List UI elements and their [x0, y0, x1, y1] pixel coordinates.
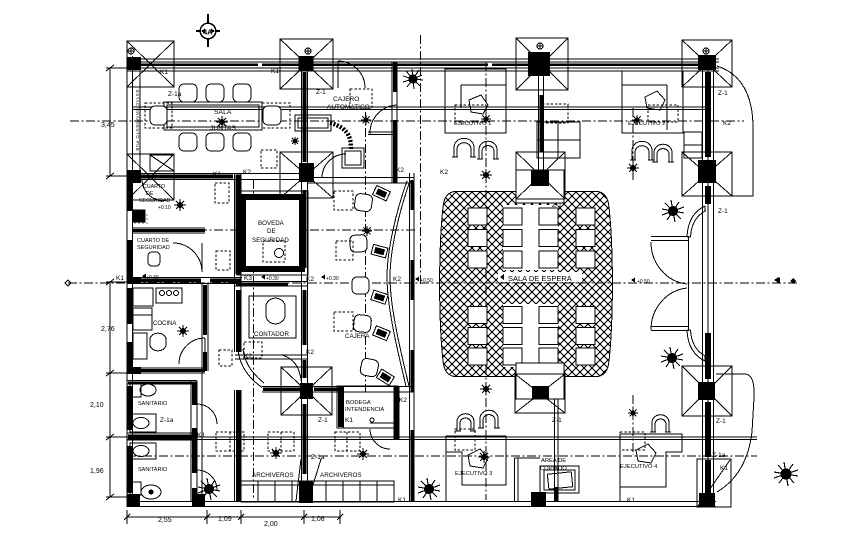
svg-text:+0.50: +0.50: [637, 279, 650, 285]
svg-text:1,08: 1,08: [311, 516, 325, 523]
svg-text:BODEGA: BODEGA: [346, 400, 371, 406]
svg-text:SEGURIDAD: SEGURIDAD: [252, 237, 289, 244]
svg-text:K1: K1: [160, 69, 168, 76]
svg-text:+0.10: +0.10: [158, 205, 171, 211]
svg-text:K1: K1: [720, 465, 728, 472]
svg-text:Z-1a: Z-1a: [311, 454, 325, 461]
svg-text:K2: K2: [243, 169, 251, 176]
svg-text:SANITARIO: SANITARIO: [138, 401, 168, 407]
svg-text:Z-1: Z-1: [316, 89, 326, 96]
svg-text:1,09: 1,09: [218, 516, 232, 523]
svg-text:Z-1: Z-1: [318, 417, 328, 424]
svg-text:Z-1: Z-1: [552, 417, 562, 424]
svg-text:K1: K1: [213, 171, 221, 178]
svg-text:BOVEDA: BOVEDA: [258, 220, 285, 227]
svg-text:INTENDENCIA: INTENDENCIA: [345, 407, 384, 413]
svg-text:K1: K1: [398, 497, 406, 504]
svg-text:K1: K1: [271, 68, 279, 75]
svg-text:Z-1a: Z-1a: [712, 452, 726, 459]
svg-text:K1: K1: [627, 497, 635, 504]
svg-text:K2: K2: [306, 349, 314, 356]
svg-text:K2: K2: [244, 353, 252, 360]
svg-text:Z-1a: Z-1a: [168, 91, 182, 98]
svg-text:3,45: 3,45: [101, 122, 115, 129]
svg-text:Z-1: Z-1: [718, 208, 728, 215]
svg-text:2,76: 2,76: [101, 326, 115, 333]
svg-text:Z-1: Z-1: [716, 418, 726, 425]
svg-text:K2: K2: [723, 120, 731, 127]
svg-text:Z-1: Z-1: [718, 90, 728, 97]
svg-text:CONTADOR: CONTADOR: [254, 331, 289, 338]
svg-text:Z-1: Z-1: [552, 202, 562, 209]
svg-text:K2: K2: [393, 276, 401, 283]
svg-text:CAJERO: CAJERO: [333, 96, 359, 103]
svg-text:SALA DE ESPERA: SALA DE ESPERA: [508, 274, 572, 283]
svg-text:SEGURIDAD: SEGURIDAD: [137, 245, 170, 251]
svg-text:K3: K3: [244, 275, 252, 282]
svg-text:2,55: 2,55: [158, 517, 172, 524]
svg-text:+0.30: +0.30: [326, 276, 339, 282]
svg-text:CUARTO DE: CUARTO DE: [137, 238, 170, 244]
svg-text:1,96: 1,96: [90, 468, 104, 475]
svg-text:EJECUTIVO 4: EJECUTIVO 4: [620, 464, 658, 470]
svg-text:ARCHIVEROS: ARCHIVEROS: [320, 472, 362, 479]
svg-text:DE: DE: [267, 228, 276, 235]
svg-text:CAJERA: CAJERA: [345, 333, 370, 340]
svg-text:AUTOMATICO: AUTOMATICO: [327, 104, 370, 111]
svg-text:JUNTAS: JUNTAS: [210, 125, 236, 132]
svg-text:2,00: 2,00: [264, 521, 278, 528]
svg-text:EJECUTIVO 2: EJECUTIVO 2: [628, 121, 665, 127]
svg-text:Z-1a: Z-1a: [160, 417, 174, 424]
svg-text:+0.30: +0.30: [146, 275, 159, 281]
svg-text:K2: K2: [399, 397, 407, 404]
svg-text:SANITARIO: SANITARIO: [138, 467, 168, 473]
svg-text:K2: K2: [440, 169, 448, 176]
svg-text:+0.30: +0.30: [266, 276, 279, 282]
svg-text:EJECUTIVO 3: EJECUTIVO 3: [455, 471, 492, 477]
svg-text:4A: 4A: [203, 28, 213, 37]
svg-text:COCINA: COCINA: [153, 321, 176, 327]
svg-text:K2: K2: [306, 276, 314, 283]
svg-text:K1: K1: [197, 432, 205, 439]
svg-text:K1: K1: [345, 417, 353, 424]
svg-text:CUARTO: CUARTO: [143, 184, 165, 190]
svg-text:ESTACIONAMIENTO PUB: ESTACIONAMIENTO PUB: [135, 90, 140, 151]
svg-text:+0.50: +0.50: [420, 278, 433, 284]
svg-text:K2: K2: [396, 167, 404, 174]
svg-text:AREA DE: AREA DE: [541, 458, 566, 464]
svg-text:2,10: 2,10: [90, 402, 104, 409]
svg-text:SALA: SALA: [214, 109, 232, 116]
svg-text:K1: K1: [116, 275, 124, 282]
svg-text:ARCHIVEROS: ARCHIVEROS: [252, 472, 294, 479]
